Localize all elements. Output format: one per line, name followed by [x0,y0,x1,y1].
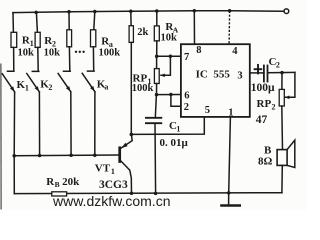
label B [258,145,273,168]
wire pin7 [157,55,181,57]
label Ra [99,35,121,58]
switch Ka blade [82,73,95,91]
svg-text:100k: 100k [99,48,121,59]
svg-text:B: B [55,180,60,189]
wire +V top rail [13,11,284,13]
wire 2k top lead [130,11,132,26]
switch K2 blade [27,74,40,92]
wire C1 top lead [155,95,156,118]
label R2 [44,35,61,59]
resistor R3 [67,30,72,47]
svg-text:5: 5 [205,105,210,116]
node rail-R2 [34,11,38,15]
potentiometer RP2 47 [279,89,284,106]
wire speaker to rail [281,165,283,192]
svg-text:10k: 10k [161,33,178,44]
svg-text:20k: 20k [62,176,80,188]
label Ka [97,79,109,92]
wire pin1 to ground [229,117,231,193]
svg-text:0. 01μ: 0. 01μ [160,137,189,149]
svg-text:3CG3: 3CG3 [99,179,128,191]
node wiper tap [169,55,173,59]
svg-text:a: a [104,82,108,91]
svg-text:2k: 2k [137,27,148,38]
svg-text:100k: 100k [132,83,154,94]
wire key common rail [14,154,118,157]
wire K2 to rail [38,92,40,156]
wire RP2 to speaker [281,106,284,150]
switch K3 blade [58,73,71,91]
resistor RB 20k [52,192,67,196]
node C2-RP2 [280,71,284,75]
speaker B 8ohm [277,140,295,167]
svg-text:3: 3 [237,71,242,82]
svg-text:2: 2 [184,102,189,113]
svg-text:2: 2 [276,60,280,69]
svg-text:8: 8 [196,45,201,56]
svg-text:4: 4 [232,46,238,57]
node emitter junction [130,133,134,137]
resistor 2k [129,26,133,43]
wire K1 to rail [13,92,15,156]
svg-text:7: 7 [184,52,189,63]
svg-text:100μ: 100μ [251,82,275,94]
resistor RA 10k [154,26,159,41]
wire K3 to rail [70,92,72,155]
resistor Ra 100k [91,30,96,47]
label RP1 [132,73,154,95]
wire RP1 bottom lead [156,84,158,95]
label C2 [251,56,280,94]
svg-text:1: 1 [25,83,29,92]
label C1 [160,120,189,149]
IC U1 555 [181,44,250,117]
transistor VT1 3CG3 [120,134,133,193]
svg-text:47: 47 [256,114,268,126]
wire Ka to rail [94,92,96,155]
label R1 [18,35,35,59]
switch K1 blade [2,74,14,92]
resistor R2 10k [35,32,40,47]
wire rail down to bottom [13,156,15,194]
node rail-pin4 [228,9,232,13]
node Ka-rail [93,153,97,157]
wire R1 to K1 contact [8,47,14,71]
node pin2 tap [169,93,173,97]
svg-text:6: 6 [184,91,189,102]
label VT1 [95,163,128,192]
node collector-rail [130,191,134,195]
node RA-pin7 [155,55,159,59]
node K3-rail [69,154,73,158]
svg-text:1: 1 [228,107,233,118]
wire emitter node to pin5 [131,117,204,134]
polarity plus [255,65,262,74]
wire RA top lead [156,11,158,26]
svg-text:2: 2 [48,83,52,92]
svg-text:10k: 10k [18,48,35,59]
svg-text:2: 2 [272,102,276,111]
wire RP1 wiper [161,56,170,75]
terminal supply [284,9,289,14]
wire pin2 stub [171,95,181,107]
svg-text:RP: RP [257,98,272,110]
node rail-Ra [93,10,97,14]
scan edge [0,64,2,209]
wire R1 top lead [12,13,14,33]
ground [222,193,240,206]
svg-text:IC 555: IC 555 [196,69,231,81]
wire RP2 top lead [281,73,283,90]
wire 2k to emitter node [130,42,132,134]
svg-text:8Ω: 8Ω [258,155,273,167]
wire pin8 [193,11,195,44]
node pin6 junction [155,93,159,97]
node C1-ground rail [154,192,158,196]
label RP2 [256,98,276,126]
wire bottom rail [14,192,282,195]
svg-text:10k: 10k [44,48,61,59]
wire RP2 wiper [285,72,295,97]
wire pin4 [228,11,231,44]
node K2-rail [38,154,42,158]
wire C2 to RP2 [268,71,295,73]
wire R3 top lead [68,12,70,30]
node rail-RA [155,9,159,13]
label RA [161,21,179,44]
capacitor C1 0.01u [146,118,161,123]
label RB [46,176,80,189]
resistor R1 10k [11,32,17,47]
node rail-R3 [67,10,71,14]
node rail-pin8 [193,9,197,13]
wire Ra to Ka contact [88,47,95,71]
wire RA bottom lead [156,41,158,56]
svg-text:www.dzkfw.com.cn: www.dzkfw.com.cn [52,193,170,209]
wire C1 bottom lead [154,123,157,193]
svg-text:VT: VT [95,163,111,175]
wire R2 to K2 contact [32,47,39,71]
wire RP1 top lead [156,56,158,68]
label K2 [40,79,52,92]
ellipsis [75,51,85,53]
node K1-rail [12,154,16,158]
svg-text:1: 1 [111,167,115,176]
wire R3 to K3 contact [64,47,71,71]
node pin1-rail [227,191,231,195]
wire Ra top lead [94,12,95,30]
label K1 [17,79,29,92]
capacitor C2 100u [264,66,268,82]
potentiometer RP1 100k [154,69,159,84]
node rail-2k [129,9,133,13]
svg-text:1: 1 [176,124,180,133]
wire pin3 [250,72,264,74]
wire pin6 [157,94,181,96]
wire R2 top lead [36,12,37,32]
